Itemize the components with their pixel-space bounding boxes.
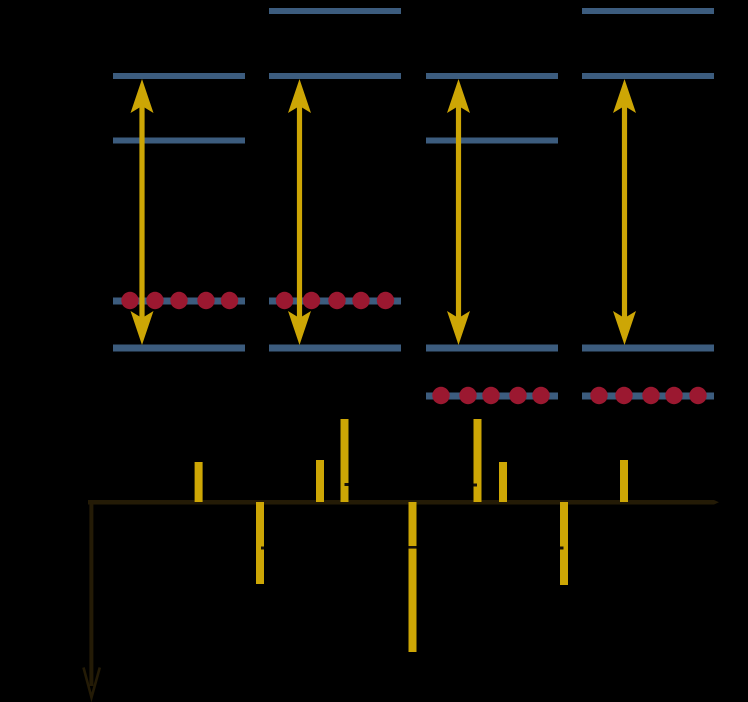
ground level column 3 [426,345,558,352]
transition arrow column 1 [131,79,154,345]
pulse 3 up [316,460,324,502]
pulse 1 up [195,462,203,502]
level E2 column 1 [113,73,245,79]
pulse 5 down long [409,502,417,652]
time axis arrowhead [84,668,100,698]
pulse 6 notch [474,484,478,487]
pulse 2 notch [261,547,264,550]
pulse 8 notch [560,547,564,550]
level E2 column 4 [582,73,714,79]
pulse 2 down [256,502,264,584]
level E1 column 3 [426,138,558,144]
pulse 6 up tall [474,419,482,502]
level E2 column 2 [269,73,401,79]
level E3 column 2 [269,8,401,14]
electron dots column 4 [590,387,706,404]
transition arrow column 4 [613,79,636,345]
pulse 4 notch [345,483,349,486]
electron dots column 3 [432,387,549,404]
populated level column 1 [113,298,245,305]
pulse 8 down [560,502,568,585]
time axis horizontal [88,500,719,505]
electron dots column 2 [276,292,394,309]
transition arrow column 3 [447,79,470,345]
level E3 column 4 [582,8,714,14]
level E2 column 3 [426,73,558,79]
ground level column 4 [582,345,714,352]
populated lower level column 4 [582,393,714,400]
pulse 9 up [620,460,628,502]
pulse 4 up tall [341,419,349,502]
ground level column 1 [113,345,245,352]
pulse 5 notch [409,546,417,549]
pulse 7 up [499,462,507,502]
populated level column 2 [269,298,401,305]
transition arrow column 2 [288,79,311,345]
electron dots column 1 [121,292,238,309]
time axis vertical [89,500,93,686]
populated lower level column 3 [426,393,558,400]
ground level column 2 [269,345,401,352]
level E1 column 1 [113,138,245,144]
